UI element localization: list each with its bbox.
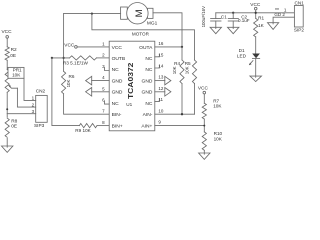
PR1 wiper arrow: [9, 86, 17, 89]
svg-text:10K: 10K: [213, 104, 222, 109]
wire: [203, 119, 205, 132]
resistor R4: [180, 60, 184, 84]
svg-text:CN1: CN1: [295, 1, 305, 6]
svg-text:10: 10: [158, 108, 164, 113]
svg-text:NC: NC: [112, 67, 120, 73]
svg-text:M: M: [134, 9, 145, 17]
svg-text:BIN-: BIN-: [112, 112, 122, 118]
wire motor-left rail down: [63, 14, 65, 72]
svg-text:16: 16: [158, 41, 164, 46]
wire PR1 top to CN2 pin1: [24, 78, 36, 100]
resistor R5: [192, 60, 196, 84]
svg-text:GND: GND: [142, 78, 153, 84]
wire R5 bottom: [194, 84, 196, 115]
potentiometer PR1: [5, 70, 9, 93]
svg-text:5: 5: [102, 86, 105, 91]
wire rail to CN2 pin3: [7, 113, 36, 115]
wire: [181, 47, 183, 60]
ground (CN1): [268, 23, 279, 30]
svg-text:R6: R6: [69, 74, 75, 79]
ground (C2): [228, 27, 239, 33]
node R3 tap: [62, 57, 64, 59]
ground arrow: [155, 80, 165, 82]
svg-text:U1: U1: [126, 102, 132, 107]
svg-text:GND: GND: [112, 78, 123, 84]
NC stub: [155, 99, 160, 102]
node R9 branch: [51, 57, 53, 59]
wire VCC rail: [216, 12, 295, 14]
svg-text:10K: 10K: [66, 80, 71, 88]
ground arrow: [92, 91, 110, 93]
svg-text:R5: R5: [185, 61, 191, 66]
node pin3 junction: [6, 108, 8, 110]
svg-text:R3 5.1E/1W: R3 5.1E/1W: [63, 60, 89, 65]
wire: [203, 94, 205, 103]
svg-text:NC: NC: [112, 101, 120, 107]
svg-text:AIN-: AIN-: [143, 112, 153, 118]
wire: [6, 92, 8, 146]
wire junction to R5 top: [92, 14, 195, 60]
connector CN2: [36, 95, 48, 122]
svg-text:7: 7: [102, 109, 105, 114]
svg-text:R9 10K: R9 10K: [75, 128, 91, 133]
svg-text:MOTOR: MOTOR: [132, 31, 150, 36]
svg-text:OUTA: OUTA: [139, 45, 153, 51]
ground (D1): [250, 76, 262, 81]
ground (C1): [210, 27, 221, 33]
resistor R3: [70, 56, 97, 60]
svg-text:LED: LED: [237, 54, 247, 59]
svg-text:1: 1: [102, 42, 105, 47]
resistor R2: [5, 47, 9, 61]
svg-text:13: 13: [158, 75, 164, 80]
svg-text:OUTB: OUTB: [112, 56, 126, 62]
svg-text:0E: 0E: [11, 123, 17, 129]
svg-text:VCC: VCC: [112, 45, 123, 51]
svg-text:C1: C1: [221, 15, 227, 20]
svg-text:4: 4: [102, 75, 105, 80]
NC stub: [155, 54, 160, 57]
svg-text:NC: NC: [145, 67, 153, 73]
capacitor C2: [232, 12, 234, 14]
resistor R1: [254, 18, 258, 37]
svg-text:CN2: CN2: [36, 89, 46, 95]
wire CN1 pin2 to ground: [273, 17, 294, 23]
svg-text:GND: GND: [142, 90, 153, 96]
svg-text:SIP3: SIP3: [34, 123, 45, 129]
wire: [6, 60, 8, 69]
svg-text:10K: 10K: [12, 72, 21, 77]
op-amp U1 TCA0372: [109, 41, 155, 131]
svg-text:BIN+: BIN+: [112, 123, 123, 129]
svg-text:100uF/16V: 100uF/16V: [201, 6, 206, 28]
svg-text:0E: 0E: [10, 53, 16, 59]
wire pin10 AIN-: [155, 113, 195, 115]
ground (divider): [199, 153, 210, 159]
svg-text:9: 9: [158, 120, 161, 125]
resistor R9: [79, 124, 97, 128]
svg-text:8: 8: [102, 120, 105, 125]
svg-text:R2: R2: [11, 47, 17, 53]
svg-text:10K: 10K: [184, 66, 189, 74]
wire R9 branch: [52, 58, 79, 126]
node R4/AIN- junction: [181, 113, 183, 115]
NC stub: [105, 101, 110, 104]
wire pin9 AIN+: [155, 125, 205, 127]
wire motor right to OUTA column: [153, 13, 182, 47]
ground arrow: [92, 80, 110, 82]
ground (bottom left): [2, 146, 13, 152]
node motor-left junction: [91, 12, 93, 14]
svg-text:0.1uF: 0.1uF: [238, 18, 250, 23]
wire R6 to pin7: [64, 94, 110, 114]
svg-text:1: 1: [32, 96, 35, 101]
svg-text:AIN+: AIN+: [141, 123, 152, 129]
resistor R6: [62, 71, 66, 94]
NC stub: [105, 68, 110, 71]
node divider junction: [203, 125, 205, 127]
svg-text:GD 2: GD 2: [274, 12, 285, 17]
svg-text:SIP2: SIP2: [294, 28, 304, 33]
svg-text:R10: R10: [214, 131, 223, 136]
svg-text:1K: 1K: [258, 23, 265, 28]
svg-text:2: 2: [102, 53, 105, 58]
wire: [77, 46, 109, 48]
resistor R8: [4, 118, 10, 138]
svg-text:2: 2: [32, 102, 35, 107]
wire R3 node: [52, 57, 70, 59]
wire wiper to CN2 pin2: [17, 88, 35, 107]
wire motor left: [64, 13, 121, 15]
resistor R7: [202, 103, 206, 119]
svg-text:12: 12: [158, 86, 164, 91]
wire: [203, 150, 205, 153]
wire: [255, 58, 257, 76]
motor MG1: [121, 7, 128, 19]
wire R4 bottom: [181, 84, 183, 115]
svg-text:NC: NC: [145, 56, 153, 62]
svg-text:NC: NC: [145, 101, 153, 107]
LED light arrow: [250, 61, 253, 65]
svg-text:10K: 10K: [172, 66, 177, 74]
svg-text:R4: R4: [174, 61, 180, 66]
wire pin16 OUTA: [155, 46, 182, 48]
svg-text:VCC: VCC: [2, 29, 13, 35]
svg-text:GND: GND: [112, 90, 123, 96]
svg-text:10K: 10K: [214, 137, 223, 142]
svg-text:VCC: VCC: [64, 42, 75, 48]
resistor R10: [202, 132, 206, 150]
svg-text:MG1: MG1: [147, 21, 158, 27]
svg-text:VCC: VCC: [198, 86, 209, 92]
wire: [255, 37, 257, 54]
ground arrow: [155, 91, 165, 93]
connector CN1: [294, 6, 303, 28]
capacitor C1: [215, 13, 217, 19]
svg-text:TCA0372: TCA0372: [126, 63, 135, 100]
svg-text:R1: R1: [258, 15, 264, 20]
NC stub: [155, 65, 160, 68]
svg-text:D1: D1: [239, 48, 245, 53]
wire: [6, 38, 8, 47]
node OUTA junction: [181, 46, 183, 48]
